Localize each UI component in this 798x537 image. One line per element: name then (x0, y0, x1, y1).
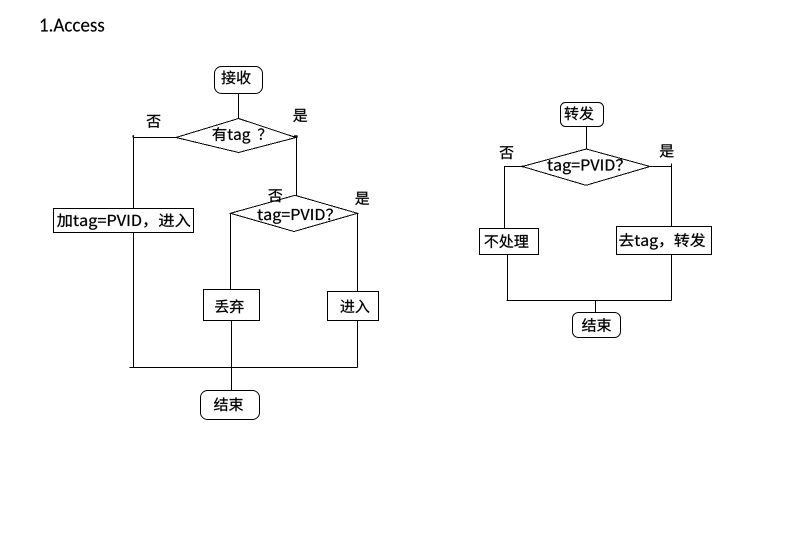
wire from 转发 to diamond (586, 127, 588, 150)
label 否 no branch 2 (268, 189, 282, 202)
label 去tag，转发 (619, 233, 705, 249)
terminator 结束 (left) (201, 391, 260, 420)
wire from 接收 to 有tag diamond (238, 94, 240, 119)
label 丢弃 (215, 299, 243, 313)
decision diamond tag=PVID? (left chart) (231, 195, 358, 231)
terminator 转发 (561, 103, 604, 127)
label 不处理 (484, 234, 528, 248)
label 结束 right (582, 318, 611, 332)
wire 是 branch: diamond right vertex down to second diamond (296, 138, 298, 196)
label 进入 (340, 300, 369, 313)
collector horizontal line left chart (130, 367, 358, 369)
wire 丢弃 bottom through collector to 结束 (231, 321, 233, 391)
label 是 yes branch 2 (355, 192, 369, 205)
process box 加tag=PVID，进入 (54, 209, 194, 233)
label 是 yes branch 1 (293, 109, 307, 122)
wire second diamond left vertex down to 丢弃 (230, 214, 232, 291)
junction tick at right-chart diamond left vertex (522, 166, 525, 168)
label 否 no branch 1 (147, 115, 161, 128)
wire 是 branch right chart (650, 167, 672, 228)
wire collector to 结束 right (595, 301, 597, 314)
process box 丢弃 (204, 290, 260, 321)
label 是 yes branch 3 (660, 144, 674, 157)
label 结束 left (214, 397, 243, 411)
process box 进入 (328, 292, 379, 321)
wire 否 branch: diamond left vertex to left rail (134, 138, 177, 368)
terminator 结束 (right) (573, 313, 621, 338)
label 接收 (221, 70, 250, 84)
label 转发 (565, 106, 594, 120)
label 否 no branch 3 (500, 146, 514, 159)
collector horizontal line right chart (507, 300, 672, 302)
junction tick at left corner (133, 135, 135, 137)
label tag=PVID？ right chart (547, 159, 622, 174)
wire second diamond right vertex down to 进入 (357, 214, 359, 292)
label title 1.Access (41, 19, 105, 32)
process box 不处理 (480, 229, 539, 255)
wire 否 branch right chart (505, 167, 523, 230)
label 加tag=PVID，进入 (57, 213, 190, 229)
label tag=PVID？ left chart (258, 209, 333, 224)
junction square at 有tag right vertex (294, 135, 298, 138)
nub above right corner of 是 branch (671, 164, 673, 167)
decision diamond 有tag? (176, 119, 296, 153)
process box 去tag，转发 (617, 227, 712, 255)
wire 去tag转发 bottom to collector (671, 254, 673, 301)
label ？ of 有tag (258, 128, 264, 139)
label 有tag (212, 127, 250, 143)
decision diamond tag=PVID? (right chart) (522, 149, 650, 185)
wire 进入 bottom to collector (357, 321, 359, 368)
wire 不处理 bottom to collector (507, 255, 509, 301)
terminator 接收 (215, 67, 263, 94)
